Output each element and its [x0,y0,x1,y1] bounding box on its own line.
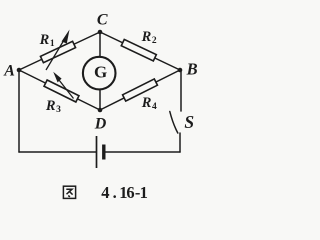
node D [98,108,103,113]
wire battery to bottom right [106,151,181,153]
resistor R3 [44,80,79,102]
arrow on R1 (variable) [46,30,70,71]
galvanometer G circle [83,57,116,90]
node B [178,68,183,73]
svg-text:A: A [3,63,15,80]
resistor R1 [40,41,75,62]
resistor R2 [121,39,156,61]
arrow on R3 (variable) [53,72,73,99]
wire C to galvanometer [99,32,101,58]
node C [98,30,103,35]
svg-text:B: B [186,59,198,78]
battery long plate [96,136,98,168]
svg-text:S: S [184,112,194,132]
wire A-D [19,70,100,110]
caption character 图 drawn as paths [63,186,75,198]
wire bottom right up to switch [179,133,181,152]
wire A down [18,70,20,152]
switch S blade [170,112,178,134]
svg-text:4.16-1: 4.16-1 [101,183,148,202]
wire galvanometer to D [99,89,101,110]
wire bottom left to battery [19,151,96,153]
wire A-C [19,32,100,70]
svg-text:C: C [97,11,108,28]
wire C-B [100,32,180,70]
node A [17,68,22,73]
svg-text:D: D [94,116,107,133]
wire D-B [100,70,180,110]
battery short thick plate [102,145,105,160]
resistor R4 [123,79,158,101]
wire B down to switch [180,70,182,111]
svg-text:G: G [94,62,107,81]
